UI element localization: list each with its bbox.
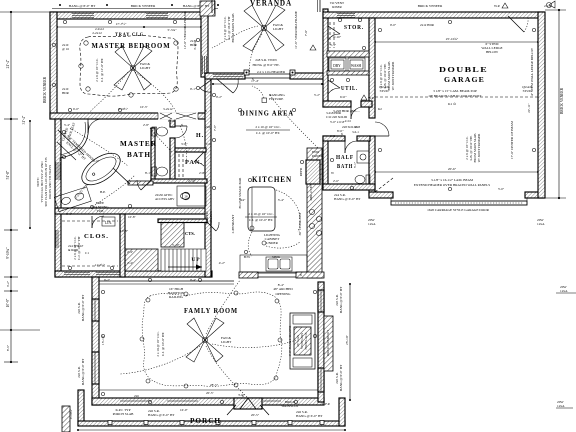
- stair treads: [161, 249, 206, 271]
- garage door panel: [391, 201, 527, 205]
- veranda left post (hatched): [200, 1, 215, 16]
- stairs hatched block: [161, 222, 184, 247]
- svg-text:25'-10": 25'-10": [345, 334, 349, 345]
- svg-text:C1: C1: [85, 251, 89, 255]
- svg-text:20'-5": 20'-5": [206, 391, 214, 395]
- svg-text:GARAGE: GARAGE: [444, 76, 485, 84]
- family room fan: [186, 318, 224, 362]
- wall: bath/hall divider: [170, 119, 175, 127]
- svg-text:DOUBLE: DOUBLE: [439, 66, 488, 74]
- svg-text:9'-4": 9'-4": [190, 278, 197, 282]
- svg-text:PORCH: PORCH: [190, 416, 221, 425]
- vanity 2 with sink: [177, 186, 206, 206]
- svg-text:36" COOK-TOP: 36" COOK-TOP: [298, 213, 302, 236]
- svg-text:$: $: [252, 77, 254, 81]
- svg-text:2x8 S.R. TWIN: 2x8 S.R. TWIN: [255, 58, 277, 62]
- svg-text:BATH: BATH: [127, 151, 151, 159]
- svg-text:B/W: B/W: [244, 255, 251, 259]
- WC toilet 1: [152, 127, 157, 136]
- svg-text:2'-10": 2'-10": [188, 179, 196, 183]
- svg-text:2-2x12: 2-2x12: [95, 27, 104, 31]
- window: stor top: [337, 14, 355, 18]
- shower diagonal glass: [58, 130, 84, 155]
- porch door bay: [234, 398, 262, 409]
- garage beam line 2: [375, 178, 393, 192]
- kitchen island: [248, 187, 275, 231]
- tray ceiling dashed wavy rect: [80, 35, 178, 96]
- wall: master bedroom bottom: [50, 113, 208, 119]
- svg-text:FLUSH SNACK BAR: FLUSH SNACK BAR: [238, 177, 242, 209]
- W.P. triangle top: [502, 3, 508, 8]
- svg-text:2-2 x 11¼ HEADER: 2-2 x 11¼ HEADER: [257, 70, 286, 74]
- svg-text:MASTER BEDROOM: MASTER BEDROOM: [92, 41, 171, 50]
- wall: bath vanity2 south: [128, 181, 153, 185]
- half bath sink: [357, 151, 369, 163]
- window: bedroom top left: [72, 14, 94, 18]
- svg-text:5'-4": 5'-4": [64, 123, 71, 127]
- bedroom double door X: [160, 113, 196, 119]
- wall: veranda / dining north wall: [205, 73, 245, 79]
- svg-text:FROM MAIN SLAB: FROM MAIN SLAB: [231, 13, 235, 43]
- svg-text:HANG @ 6'-0" HT: HANG @ 6'-0" HT: [148, 413, 175, 417]
- svg-text:16'-0": 16'-0": [180, 408, 188, 412]
- wall: right block top exterior: [323, 12, 544, 18]
- svg-text:28: 28: [185, 194, 189, 198]
- svg-text:2 x 10 @ 16" O.C.: 2 x 10 @ 16" O.C.: [255, 125, 280, 129]
- curved shower: [60, 122, 88, 158]
- right lower dash marks: [556, 292, 576, 294]
- svg-text:12xA: 12xA: [537, 222, 545, 226]
- wall: closet bottom (wing bottom): [55, 271, 212, 277]
- svg-text:HDR: HDR: [168, 119, 176, 123]
- svg-text:7'-8": 7'-8": [213, 124, 217, 131]
- switch curve family fan up: [206, 280, 240, 334]
- svg-text:9'-1": 9'-1": [190, 87, 197, 91]
- svg-text:25'-10¾": 25'-10¾": [446, 37, 459, 41]
- wall: master suite left exterior upper: [50, 12, 57, 119]
- svg-text:9'-6": 9'-6": [93, 159, 100, 163]
- second left dim line: [29, 121, 31, 228]
- switch curve kitchen: [248, 190, 300, 256]
- wall: bath / closet divider: [55, 208, 206, 214]
- svg-text:HDR: HDR: [62, 91, 70, 95]
- svg-text:LIGHT: LIGHT: [273, 27, 284, 31]
- family left windows: [92, 299, 99, 321]
- wall: half bath left: [323, 136, 328, 189]
- svg-text:C/O 2x8 SOLID: C/O 2x8 SOLID: [326, 115, 348, 119]
- svg-text:BRICK BUMPOUT: BRICK BUMPOUT: [326, 330, 330, 356]
- svg-text:6'-0" FLUSH HEARTH: 6'-0" FLUSH HEARTH: [288, 325, 292, 356]
- svg-text:K1 ⊙: K1 ⊙: [448, 102, 456, 106]
- svg-text:HUNG @ 8'-0" HT.: HUNG @ 8'-0" HT.: [252, 63, 279, 67]
- svg-text:C/O: C/O: [206, 142, 212, 146]
- svg-text:2x8 SOLID: 2x8 SOLID: [342, 125, 358, 129]
- svg-text:3-2x12: 3-2x12: [163, 107, 173, 111]
- svg-text:20'-6": 20'-6": [448, 167, 457, 171]
- svg-text:9'-0": 9'-0": [390, 23, 397, 27]
- svg-text:K2: K2: [378, 107, 382, 111]
- wall: family room right: [318, 282, 324, 402]
- svg-text:10'-3": 10'-3": [140, 105, 148, 109]
- svg-text:20'-5": 20'-5": [251, 413, 260, 417]
- door: porch french leaves: [227, 405, 269, 415]
- svg-text:3'-1": 3'-1": [66, 212, 73, 216]
- svg-text:DRY: DRY: [333, 64, 341, 68]
- svg-text:STOR.: STOR.: [344, 24, 364, 31]
- wall: master suite left exterior lower: [55, 119, 61, 277]
- svg-text:2x8: 2x8: [205, 125, 210, 129]
- wall: garage bottom: [369, 192, 393, 198]
- svg-text:2'-4": 2'-4": [127, 250, 134, 254]
- wall: master suite top exterior: [50, 12, 208, 19]
- family right vertical dim: [349, 284, 351, 400]
- wall: stor/util left exterior: [323, 9, 328, 107]
- fireplace bumpout wall: [324, 316, 333, 371]
- window: bedroom right wall: [203, 56, 207, 74]
- bath door from hall: [141, 180, 151, 190]
- veranda fan: [243, 5, 285, 51]
- svg-text:6'-2": 6'-2": [104, 278, 111, 282]
- svg-text:HANG @ 8'-0" HT: HANG @ 8'-0" HT: [81, 358, 85, 385]
- wall: family room left: [92, 277, 99, 405]
- svg-text:TUB: TUB: [97, 209, 105, 213]
- svg-text:W/ JOIST HANGER: W/ JOIST HANGER: [477, 133, 481, 162]
- svg-text:UNDER: UNDER: [266, 241, 278, 245]
- wall: closet / stair divider: [120, 214, 125, 277]
- svg-text:2 x 6 @ 16" O.C.: 2 x 6 @ 16" O.C.: [95, 58, 99, 82]
- switch curve bedroom fan to left: [90, 72, 128, 112]
- closet rod dashed: [62, 220, 118, 222]
- svg-text:C.J. @ 10'-0" HT.: C.J. @ 10'-0" HT.: [256, 131, 281, 135]
- svg-text:REFR: REFR: [299, 167, 303, 176]
- fireplace: [290, 313, 315, 369]
- left margin note block rotated: [36, 158, 52, 207]
- svg-text:U.F.P.: U.F.P.: [322, 402, 330, 406]
- top margin tick dots: [59, 4, 219, 6]
- svg-text:SINK: SINK: [272, 255, 280, 259]
- svg-text:$: $: [242, 394, 244, 398]
- svg-text:5'-1": 5'-1": [330, 43, 337, 47]
- wall: WC room left: [151, 128, 155, 180]
- svg-text:HALF: HALF: [336, 155, 354, 161]
- pendant circles: [250, 226, 254, 230]
- svg-text:C/O: C/O: [345, 119, 351, 123]
- svg-text:2-1⅛: 2-1⅛: [544, 4, 552, 8]
- svg-text:W: W: [331, 171, 334, 175]
- garage interior dim line: [375, 41, 538, 43]
- svg-text:9'-2": 9'-2": [216, 95, 223, 99]
- svg-text:10'-8": 10'-8": [120, 229, 129, 233]
- bath diagonal notes: [62, 134, 95, 166]
- svg-text:$: $: [181, 123, 183, 127]
- stair direction arrow: [168, 266, 202, 268]
- W.P. triangle util: [361, 95, 367, 100]
- util hatched band under stor wall: [327, 71, 369, 75]
- veranda frame second lines: [214, 0, 216, 13]
- svg-text:2-2x12: 2-2x12: [92, 31, 102, 35]
- rotated small texts: [77, 11, 534, 391]
- garage corner door: [508, 16, 524, 32]
- svg-text:W.P.: W.P.: [494, 4, 500, 8]
- switch curve family fan down: [206, 346, 248, 398]
- svg-text:2'-8": 2'-8": [199, 171, 206, 175]
- svg-text:W/ JOIST HANGER: W/ JOIST HANGER: [391, 61, 395, 90]
- svg-text:3'-4": 3'-4": [278, 198, 285, 202]
- svg-text:LIGHT: LIGHT: [221, 340, 232, 344]
- hanging fixture symbol: [262, 98, 267, 103]
- svg-text:5'-1": 5'-1": [353, 161, 357, 168]
- svg-text:LIN.: LIN.: [105, 221, 112, 225]
- family extra curves: [120, 340, 296, 374]
- wall: stor bottom (hatched): [327, 51, 369, 57]
- wall: garage right exterior: [538, 12, 545, 198]
- door: stor: [328, 26, 340, 34]
- svg-text:HANG @ 8'-0" HT: HANG @ 8'-0" HT: [81, 294, 85, 321]
- svg-text:PAN.: PAN.: [185, 159, 203, 166]
- wall: stair block top: [158, 219, 207, 223]
- door: hall H: [175, 125, 187, 127]
- svg-text:HANG @ 8'-0" HT: HANG @ 8'-0" HT: [183, 4, 210, 8]
- kitchen sink window: [258, 272, 296, 274]
- svg-text:$: $: [300, 273, 302, 277]
- left dim line extension: [10, 330, 12, 362]
- svg-text:2 x 10 @ 16" O.C.: 2 x 10 @ 16" O.C.: [156, 331, 160, 356]
- svg-text:4'-10¼": 4'-10¼": [69, 408, 73, 419]
- svg-text:CEILING: CEILING: [209, 211, 213, 225]
- svg-text:3'-2": 3'-2": [6, 280, 10, 287]
- wall: wing right (dining west wall): [205, 77, 211, 277]
- svg-text:B.P.: B.P.: [100, 190, 106, 194]
- wall: master bedroom right exterior: [201, 12, 208, 77]
- svg-text:6'-0": 6'-0": [340, 95, 347, 99]
- switch curve dining: [270, 95, 318, 148]
- svg-text:FIXTURE: FIXTURE: [269, 97, 283, 101]
- svg-text:4" STEM WALL LEDGE BELOW: 4" STEM WALL LEDGE BELOW: [530, 47, 534, 96]
- svg-text:RISER: RISER: [332, 5, 342, 9]
- porch columns: [108, 421, 324, 425]
- svg-text:CTS.: CTS.: [185, 231, 195, 236]
- wall: pantry top: [175, 148, 206, 152]
- top margin line: [52, 8, 218, 10]
- svg-text:5'-2": 5'-2": [314, 93, 321, 97]
- ceiling light circles bedroom: [79, 41, 178, 97]
- svg-text:EXTEND HEADER OVER BRACED WALL: EXTEND HEADER OVER BRACED WALL PANELS: [414, 183, 490, 187]
- pantry shelves dashed: [178, 154, 180, 177]
- svg-text:6'-0": 6'-0": [73, 107, 80, 111]
- window tag marks: [244, 70, 249, 75]
- svg-text:4'-2": 4'-2": [219, 261, 226, 265]
- porch left edge: [78, 390, 84, 425]
- header over dining opening: [245, 73, 290, 75]
- WC toilet 2: [152, 167, 157, 176]
- garage bottom dim line: [375, 171, 538, 173]
- svg-text:DROPS AND T/B TRAYS: DROPS AND T/B TRAYS: [48, 165, 52, 200]
- svg-text:2-PENDANT: 2-PENDANT: [231, 214, 235, 234]
- svg-text:C.J. @ 12'-0" HT.: C.J. @ 12'-0" HT.: [100, 58, 104, 83]
- svg-text:BRICK VENEER: BRICK VENEER: [418, 4, 443, 8]
- svg-text:BELOW: BELOW: [486, 50, 499, 54]
- svg-text:W.P.: W.P.: [368, 96, 374, 100]
- svg-text:HANG @ 8'-0" HT: HANG @ 8'-0" HT: [69, 4, 96, 8]
- wall: half bath top: [323, 136, 345, 141]
- family bottom windows: [120, 400, 151, 402]
- wall: family room bottom: [92, 398, 324, 405]
- svg-text:8'-4": 8'-4": [278, 283, 285, 287]
- svg-text:HANG @ 8'-0" HT: HANG @ 8'-0" HT: [339, 286, 343, 313]
- wall: kitchen south: [239, 272, 258, 278]
- family right windows: [318, 290, 324, 312]
- svg-text:& ROD: & ROD: [68, 248, 79, 252]
- svg-text:HANG @ 8'-0" HT: HANG @ 8'-0" HT: [339, 364, 343, 391]
- svg-text:2x6: 2x6: [134, 394, 139, 398]
- svg-text:ACCESS ABV: ACCESS ABV: [155, 197, 175, 201]
- svg-text:RAILING: RAILING: [169, 295, 183, 299]
- left margin dimension line: [0, 12, 50, 330]
- svg-text:5'-0": 5'-0": [498, 187, 505, 191]
- wall: kitchen east (hatched, refr/cooktop): [307, 148, 322, 278]
- porch bottom edge: [78, 421, 345, 426]
- stor shelves dashed: [329, 22, 331, 48]
- svg-text:BATH: BATH: [337, 164, 353, 170]
- svg-text:$: $: [352, 109, 354, 113]
- wall: half bath bottom: [323, 184, 375, 190]
- bath entry door arc: [87, 119, 89, 133]
- svg-text:7'-0": 7'-0": [304, 29, 308, 36]
- W.P. triangle veranda: [310, 45, 316, 50]
- svg-text:LIGHT: LIGHT: [140, 66, 151, 70]
- door: garage entry: [375, 135, 389, 137]
- svg-text:4'-10½": 4'-10½": [118, 107, 129, 111]
- porch left steps (hatched): [62, 406, 70, 432]
- porch bottom dim ticks: [78, 429, 345, 431]
- svg-text:KITCHEN: KITCHEN: [252, 175, 292, 184]
- svg-text:11'-6½": 11'-6½": [95, 263, 106, 267]
- svg-text:HANG @ 6'-0" HT: HANG @ 6'-0" HT: [334, 197, 361, 201]
- switch curve bedroom fan to door: [135, 72, 176, 112]
- window: closet left: [56, 230, 58, 248]
- svg-text:16x8 CARRIAGE STYLE GARAGE DOO: 16x8 CARRIAGE STYLE GARAGE DOOR: [427, 208, 490, 212]
- svg-text:C.J. @ 10'-0" HT.: C.J. @ 10'-0" HT.: [249, 218, 274, 222]
- svg-text:3-6-1: 3-6-1: [352, 130, 359, 134]
- svg-text:PANEL: PANEL: [312, 154, 323, 158]
- svg-text:UP: UP: [191, 257, 200, 263]
- cooktop burners: [309, 209, 314, 214]
- veranda frame line right: [319, 0, 321, 12]
- svg-text:$: $: [205, 109, 207, 113]
- family room railing: [99, 280, 234, 282]
- bath dashed leader curves: [70, 126, 187, 205]
- svg-text:10'-9": 10'-9": [6, 298, 10, 307]
- family bottom dim line: [99, 389, 318, 391]
- switch S marks: [181, 77, 354, 398]
- svg-text:BRICK VENEER: BRICK VENEER: [43, 76, 47, 103]
- porch right edge: [339, 398, 345, 426]
- svg-text:12xA: 12xA: [368, 222, 376, 226]
- svg-text:3-1/8" x 16-1/2" LAM. BEAM: 3-1/8" x 16-1/2" LAM. BEAM: [431, 178, 473, 182]
- svg-text:CLOS.: CLOS.: [84, 233, 109, 240]
- svg-text:8'-6": 8'-6": [6, 344, 10, 351]
- half bath toilet: [366, 175, 370, 184]
- switch curve veranda fan down: [250, 34, 263, 73]
- svg-text:2 x 10 @ 16" O.C.: 2 x 10 @ 16" O.C.: [248, 212, 273, 216]
- kitchen base counter + sink: [240, 255, 307, 272]
- door: closet entry: [91, 216, 93, 228]
- linen closet: [102, 217, 115, 226]
- door: half bath: [344, 141, 346, 153]
- svg-text:17'-7½": 17'-7½": [116, 22, 127, 26]
- refrigerator nook: [306, 160, 320, 184]
- svg-text:@ 16: @ 16: [62, 47, 69, 51]
- svg-text:C/O: C/O: [330, 134, 336, 138]
- master vanity with two sinks: [54, 187, 91, 212]
- svg-text:HANG @ 6'-0" HT: HANG @ 6'-0" HT: [296, 414, 323, 418]
- svg-text:VERANDA: VERANDA: [250, 0, 292, 8]
- svg-text:FAMLY ROOM: FAMLY ROOM: [184, 307, 238, 315]
- switch curve veranda fan left: [212, 26, 258, 48]
- right margin dimension line: [545, 10, 566, 198]
- svg-text:21'-4": 21'-4": [6, 59, 10, 68]
- svg-text:DINING AREA: DINING AREA: [240, 110, 294, 118]
- front door leaf: [217, 79, 233, 93]
- veranda frame line left: [211, 0, 213, 13]
- svg-text:BRICK VENEER: BRICK VENEER: [131, 4, 156, 8]
- svg-text:31'-4": 31'-4": [22, 115, 26, 124]
- svg-text:WAINSCOT: WAINSCOT: [281, 404, 299, 408]
- wall: util bottom: [323, 101, 351, 107]
- svg-text:DBL OVEN: DBL OVEN: [309, 183, 313, 200]
- window: bath left: [56, 162, 60, 180]
- window: veranda/dining twin hung: [213, 75, 243, 77]
- family ceiling wavy dashed loop: [142, 292, 282, 386]
- svg-text:12xA: 12xA: [557, 404, 565, 408]
- svg-text:BRICK VENEER: BRICK VENEER: [560, 87, 564, 114]
- util: washer box: [348, 58, 365, 71]
- svg-text:MASTER: MASTER: [120, 140, 157, 148]
- door: util entry from dining: [328, 80, 340, 88]
- util: dryer box: [329, 58, 346, 71]
- svg-text:2'-4": 2'-4": [127, 261, 134, 265]
- svg-text:8'-1": 8'-1": [145, 171, 152, 175]
- svg-text:22'-11": 22'-11": [527, 102, 531, 112]
- svg-text:2'-8": 2'-8": [143, 123, 150, 127]
- svg-text:3'-8": 3'-8": [181, 142, 188, 146]
- bedroom interior dim line: [57, 26, 201, 28]
- door: under-stair closet: [207, 222, 216, 231]
- svg-text:$: $: [341, 132, 343, 136]
- svg-text:5'-0" x 6'-8": 5'-0" x 6'-8": [330, 120, 346, 124]
- svg-text:FIREPLACE: FIREPLACE: [304, 332, 308, 349]
- bedroom door gap: [158, 112, 198, 119]
- svg-text:5'-10": 5'-10": [172, 243, 180, 247]
- wall: pantry bottom / bath south: [151, 179, 207, 183]
- svg-text:TRAY CLG: TRAY CLG: [115, 33, 144, 38]
- svg-text:OPENING: OPENING: [276, 292, 291, 296]
- free standing tub: [76, 147, 125, 191]
- bedroom fan: [114, 46, 152, 90]
- svg-text:17'-0" CENTER OF BEAM: 17'-0" CENTER OF BEAM: [510, 121, 514, 159]
- door: pantry: [194, 152, 204, 162]
- svg-text:48" ARCHED: 48" ARCHED: [273, 287, 293, 291]
- svg-text:28'-5": 28'-5": [210, 383, 219, 387]
- electrical outlet symbols: [52, 18, 535, 403]
- ceiling light circles family: [140, 291, 282, 388]
- door: util: [350, 107, 352, 119]
- svg-text:12'-0" VERANDA FRAME: 12'-0" VERANDA FRAME: [183, 11, 187, 49]
- top right hose symbol: [547, 3, 552, 8]
- svg-text:H.: H.: [196, 133, 204, 139]
- svg-text:2x12 HDR: 2x12 HDR: [420, 23, 435, 27]
- svg-text:2'-6": 2'-6": [333, 179, 340, 183]
